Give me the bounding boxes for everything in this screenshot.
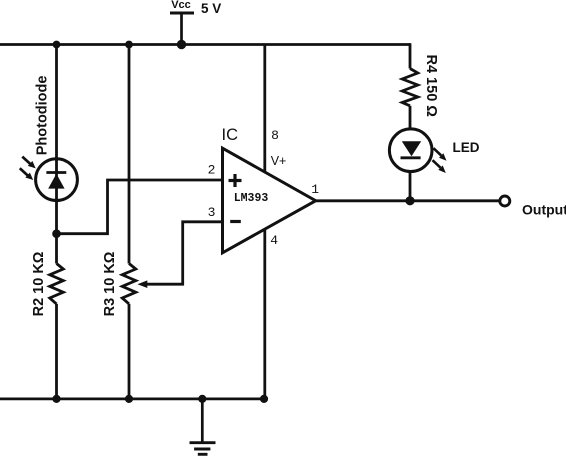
ground <box>190 399 216 454</box>
junction dot bottom rail pin4 <box>260 395 268 403</box>
svg-text:R2 10 KΩ: R2 10 KΩ <box>31 251 47 316</box>
svg-text:R4 150 Ω: R4 150 Ω <box>423 54 439 117</box>
resistor R2 <box>50 264 64 304</box>
wire R3 column upper <box>128 45 131 264</box>
photodiode light arrow 1 <box>22 157 35 169</box>
junction dot bottom rail R2 <box>52 395 60 403</box>
svg-text:8: 8 <box>271 128 279 143</box>
wire LED to output node <box>409 171 412 201</box>
svg-text:LED: LED <box>453 140 480 155</box>
op-amp minus input symbol <box>230 220 241 223</box>
Vcc power symbol <box>170 13 194 45</box>
svg-text:IC: IC <box>222 126 239 144</box>
wire pin 3 to potentiometer wiper <box>147 222 223 284</box>
svg-text:2: 2 <box>208 163 216 178</box>
wire photodiode column upper <box>55 45 58 264</box>
svg-text:Output: Output <box>522 201 566 217</box>
svg-text:LM393: LM393 <box>234 192 269 205</box>
output terminal <box>500 196 510 206</box>
svg-text:1: 1 <box>311 182 319 197</box>
wire bottom rail <box>0 397 265 400</box>
op-amp plus input symbol <box>229 174 242 187</box>
potentiometer R3 <box>122 264 136 304</box>
junction dot photodiode node <box>52 229 61 238</box>
photodiode light arrow 2 <box>20 168 33 180</box>
svg-text:3: 3 <box>208 205 216 220</box>
svg-text:V+: V+ <box>271 154 287 168</box>
wire op-amp output to terminal <box>316 199 501 202</box>
junction dot output node <box>405 196 414 205</box>
svg-text:Photodiode: Photodiode <box>34 76 50 156</box>
junction dot bottom rail ground <box>198 395 206 403</box>
svg-text:R3 10 KΩ: R3 10 KΩ <box>102 251 118 316</box>
svg-text:Vcc: Vcc <box>171 0 191 11</box>
svg-text:5 V: 5 V <box>201 1 221 16</box>
wire top rail <box>0 43 410 46</box>
op-amp U1 LM393 <box>223 148 316 253</box>
junction dot top rail photodiode <box>53 41 61 49</box>
LED light arrow 2 <box>433 160 446 173</box>
junction dot bottom rail R3 <box>125 395 133 403</box>
photodiode D1 <box>36 159 78 201</box>
wire photodiode column lower <box>55 304 58 399</box>
LED D2 <box>389 129 432 172</box>
LED light arrow 1 <box>434 148 447 161</box>
junction dot top rail R3 <box>125 41 133 49</box>
wire photodiode node to pin 2 <box>57 180 223 234</box>
junction dot Vcc <box>177 40 186 49</box>
potentiometer wiper arrowhead <box>138 280 148 288</box>
wire pin 4 to bottom rail <box>263 229 266 399</box>
resistor R4 <box>402 69 418 106</box>
wire R4 to LED <box>409 106 412 130</box>
wire pin 8 to rail <box>263 45 266 174</box>
svg-text:4: 4 <box>270 233 278 248</box>
wire R3 column lower <box>128 304 131 399</box>
wire R4 branch drop <box>409 43 412 68</box>
